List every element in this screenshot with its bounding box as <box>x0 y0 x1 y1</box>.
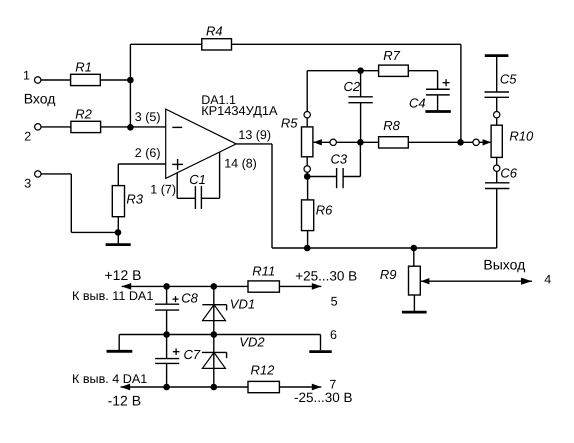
svg-text:-25...30 В: -25...30 В <box>294 390 353 405</box>
svg-text:13 (9): 13 (9) <box>238 128 271 142</box>
svg-text:КР1434УД1А: КР1434УД1А <box>201 103 278 118</box>
svg-text:Вход: Вход <box>24 90 56 106</box>
svg-text:R2: R2 <box>75 106 92 121</box>
svg-text:1 (7): 1 (7) <box>150 182 176 196</box>
svg-text:VD2: VD2 <box>239 334 265 349</box>
svg-text:C2: C2 <box>344 79 361 94</box>
svg-text:R5: R5 <box>281 115 298 130</box>
svg-text:+12 В: +12 В <box>105 267 142 283</box>
svg-text:C1: C1 <box>189 172 206 187</box>
svg-text:R8: R8 <box>383 118 400 133</box>
svg-text:14 (8): 14 (8) <box>224 156 257 170</box>
svg-text:К выв. 4 DA1: К выв. 4 DA1 <box>72 372 147 386</box>
svg-text:R12: R12 <box>251 362 276 377</box>
svg-text:VD1: VD1 <box>230 297 255 312</box>
svg-text:+25...30 В: +25...30 В <box>295 268 357 283</box>
svg-text:R11: R11 <box>252 264 275 279</box>
svg-text:-12 В: -12 В <box>108 393 141 409</box>
svg-text:4: 4 <box>544 273 551 287</box>
svg-text:R3: R3 <box>126 191 143 206</box>
svg-text:3 (5): 3 (5) <box>135 110 161 124</box>
svg-text:5: 5 <box>331 294 338 308</box>
svg-text:К выв. 11 DA1: К выв. 11 DA1 <box>72 289 153 303</box>
svg-text:Выход: Выход <box>483 256 525 272</box>
svg-text:6: 6 <box>330 328 337 342</box>
svg-text:C7: C7 <box>184 347 201 362</box>
svg-text:R1: R1 <box>75 60 92 75</box>
svg-text:1: 1 <box>23 69 30 83</box>
svg-text:C8: C8 <box>181 290 198 305</box>
svg-text:R7: R7 <box>383 48 400 63</box>
svg-text:R10: R10 <box>509 128 534 143</box>
svg-text:R9: R9 <box>380 267 397 282</box>
svg-text:2: 2 <box>24 129 31 143</box>
svg-text:3: 3 <box>24 177 31 191</box>
svg-text:C4: C4 <box>409 95 426 110</box>
svg-text:C3: C3 <box>331 152 348 167</box>
svg-text:R6: R6 <box>316 202 333 217</box>
svg-text:2 (6): 2 (6) <box>135 146 161 160</box>
svg-text:C5: C5 <box>500 72 517 87</box>
svg-text:7: 7 <box>329 377 336 391</box>
svg-text:C6: C6 <box>500 166 517 181</box>
svg-text:R4: R4 <box>206 23 223 38</box>
